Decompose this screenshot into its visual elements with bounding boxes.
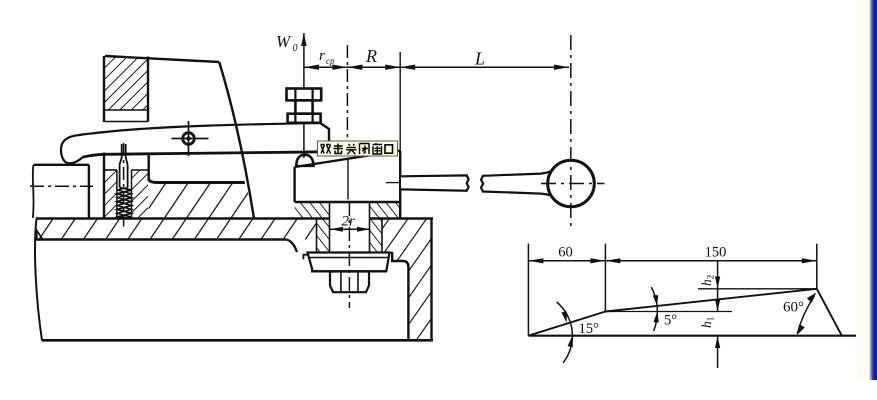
svg-text:15°: 15° [579,321,600,337]
svg-text:2r: 2r [342,214,356,230]
svg-text:5°: 5° [664,313,677,329]
svg-text:r: r [319,48,325,64]
svg-text:0: 0 [293,43,298,54]
svg-text:L: L [474,49,485,69]
svg-text:60°: 60° [783,300,804,316]
svg-text:cp: cp [326,56,335,66]
svg-text:R: R [365,46,377,66]
svg-text:150: 150 [705,245,727,261]
svg-text:60: 60 [558,245,573,261]
svg-text:W: W [276,32,292,51]
